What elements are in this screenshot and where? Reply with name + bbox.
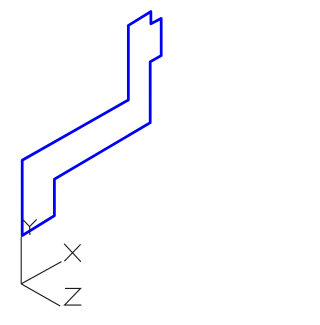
- Z label: [65, 288, 82, 305]
- Y label: [22, 219, 37, 235]
- X label: [64, 244, 81, 262]
- Y axis line: [20, 237, 22, 284]
- part outline (extruded Z-bracket silhouette): [22, 12, 161, 236]
- X axis line: [21, 262, 61, 284]
- Z axis line: [21, 284, 60, 306]
